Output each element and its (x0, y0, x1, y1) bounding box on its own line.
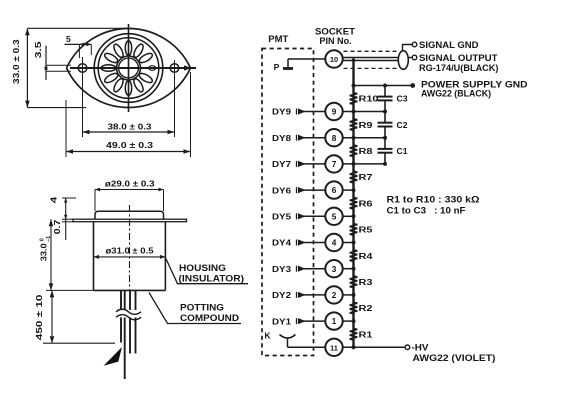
housing leader line (165, 258, 248, 284)
dimension 33.0 text (11, 39, 21, 84)
resistor R2 (350, 302, 358, 314)
svg-text:AWG22 (VIOLET): AWG22 (VIOLET) (413, 353, 496, 363)
resistor R8 (350, 145, 358, 157)
wire bus to POWER SUPPLY GND (354, 85, 411, 87)
dynode DY1 pin symbol (297, 318, 306, 324)
svg-text:6: 6 (332, 186, 337, 195)
dimension dia 31.0 text (106, 245, 154, 255)
label SOCKET PIN No. (315, 26, 356, 46)
svg-text:DY9: DY9 (272, 107, 291, 117)
capacitor C3 (378, 97, 393, 101)
wire DY3 to pin 3 (303, 268, 325, 270)
svg-text:SIGNAL GND: SIGNAL GND (419, 40, 479, 50)
svg-text:C1 to C3 : 10 nF: C1 to C3 : 10 nF (387, 206, 467, 216)
wire coax core to SIGNAL OUTPUT (408, 57, 412, 59)
dimension 33.0 extension top (27, 27, 131, 29)
dimension 33.0 line (25, 28, 30, 107)
svg-text:R6: R6 (359, 198, 373, 208)
dimension 33.0 extension bottom (27, 107, 86, 109)
dynode DY2 pin symbol (297, 292, 306, 298)
dimension 33.0 side vertical (46, 219, 94, 290)
dynode DY7 pin symbol (297, 161, 306, 167)
dynode DY6 pin symbol (297, 187, 306, 193)
dimension dia 29.0 text (105, 179, 155, 189)
dimension 450 text (35, 294, 44, 340)
wire pin 8 to capacitor column (343, 137, 385, 139)
dynode DY7 label (272, 159, 291, 169)
svg-text:R3: R3 (359, 277, 373, 287)
dimension 4 and 0.7 vertical (64, 198, 67, 240)
top view right mounting hole (170, 64, 179, 73)
svg-text:COMPOUND: COMPOUND (180, 313, 239, 323)
dimension 450 extension bottom (43, 342, 115, 344)
svg-text:R2: R2 (359, 303, 373, 313)
label R7 (359, 172, 373, 182)
dynode DY9 pin symbol (297, 108, 306, 114)
dynode DY5 label (272, 212, 291, 222)
svg-text:0: 0 (40, 238, 46, 241)
svg-text:R9: R9 (359, 120, 373, 130)
dimension 3.5 lines (44, 46, 71, 81)
label C1 (397, 146, 408, 156)
svg-text:DY6: DY6 (272, 185, 291, 195)
svg-text:38.0 ± 0.3: 38.0 ± 0.3 (108, 122, 152, 132)
wire DY6 to pin 6 (303, 189, 325, 191)
svg-text:R1 to R10 : 330 kΩ: R1 to R10 : 330 kΩ (387, 195, 480, 205)
svg-text:AWG22 (BLACK): AWG22 (BLACK) (421, 89, 491, 99)
svg-text:DY4: DY4 (272, 238, 291, 248)
label -HV (412, 342, 429, 352)
capacitor C1 (378, 149, 393, 153)
socket pin 11 circle (325, 339, 342, 356)
svg-text:5: 5 (332, 212, 337, 221)
socket pin 2 circle (325, 286, 342, 303)
label PMT (268, 34, 289, 44)
svg-text:K: K (264, 331, 271, 341)
wire pin 2 to bus (343, 294, 354, 296)
resistor R4 (350, 250, 358, 262)
svg-text:ø29.0 ± 0.3: ø29.0 ± 0.3 (105, 179, 155, 189)
anode P symbol (274, 59, 293, 72)
terminal POWER SUPPLY GND (dot) (410, 83, 415, 88)
socket pin 8 circle (325, 129, 342, 146)
svg-text:DY8: DY8 (272, 133, 291, 143)
cable end arrow (solid) (104, 347, 123, 366)
dimension 49.0 extension right (190, 72, 192, 157)
socket pin 10 circle (325, 50, 342, 67)
dynode DY4 pin symbol (297, 239, 306, 245)
wire pin 3 to bus (343, 268, 354, 270)
label SIGNAL GND (419, 40, 479, 50)
extension line right hole (174, 60, 176, 137)
wire pin 1 to bus (343, 320, 354, 322)
wire lead 3 (129, 291, 131, 354)
svg-text:R10: R10 (359, 94, 379, 104)
socket pin 7 circle (325, 155, 342, 172)
wire pin 11 to -HV (343, 346, 405, 348)
dimension 3.5 text (34, 41, 43, 59)
wire DY8 to pin 8 (303, 137, 325, 139)
label AWG22 VIOLET (413, 353, 496, 363)
label R4 (359, 251, 373, 261)
svg-text:0.7: 0.7 (53, 219, 62, 234)
top view horizontal centerline (70, 65, 196, 70)
svg-text:SIGNAL OUTPUT: SIGNAL OUTPUT (419, 53, 498, 63)
svg-text:4: 4 (332, 239, 337, 248)
dimension 49.0 text (106, 140, 153, 150)
terminal SIGNAL GND (412, 42, 417, 47)
PMT dashed enclosure (262, 49, 314, 356)
label R1 (359, 329, 373, 339)
terminal -HV (405, 345, 410, 350)
potting label (180, 303, 239, 324)
svg-text:8: 8 (332, 134, 337, 143)
coax jacket dashed outline (344, 51, 399, 68)
svg-text:P: P (274, 62, 280, 72)
cathode K symbol (264, 331, 295, 348)
wire DY7 to pin 7 (303, 163, 325, 165)
wire DY5 to pin 5 (303, 215, 325, 217)
svg-text:DY3: DY3 (272, 264, 291, 274)
svg-text:DY2: DY2 (272, 290, 291, 300)
svg-text:3.5: 3.5 (34, 41, 43, 59)
label R9 (359, 120, 373, 130)
wire coax shield to SIGNAL GND (403, 45, 413, 52)
note resistor values (387, 195, 480, 205)
socket pin 3 circle (325, 260, 342, 277)
wire pin 4 to bus (343, 242, 354, 244)
label C2 (397, 120, 408, 130)
potting leader line (149, 293, 241, 324)
socket pin 1 circle (325, 312, 342, 329)
svg-text:PMT: PMT (268, 34, 289, 44)
top view flange outline (eye shape) (67, 28, 191, 107)
label R3 (359, 277, 373, 287)
svg-text:1: 1 (332, 317, 337, 326)
svg-text:SOCKET: SOCKET (315, 26, 356, 36)
wire DY2 to pin 2 (303, 294, 325, 296)
svg-text:2: 2 (332, 291, 337, 300)
dimension 33.0 side text (39, 236, 52, 261)
top view left mounting hole (78, 64, 87, 73)
wire DY4 to pin 4 (303, 242, 325, 244)
svg-text:R4: R4 (359, 251, 373, 261)
dimension 4 extension (62, 197, 76, 199)
svg-text:C3: C3 (397, 94, 408, 104)
top view 11 pin hole ovals (101, 41, 154, 96)
label R2 (359, 303, 373, 313)
dimension 5 text (66, 34, 71, 44)
dimension 49.0 line (66, 149, 191, 154)
svg-text:11: 11 (330, 343, 338, 352)
resistor R3 (350, 276, 358, 288)
resistor R5 (350, 224, 358, 236)
side view socket dome cap (95, 211, 164, 219)
housing label (179, 263, 245, 284)
label R5 (359, 225, 373, 235)
top view center hub circles (117, 56, 141, 80)
svg-text:33.0: 33.0 (39, 243, 48, 261)
junction dots (352, 58, 388, 349)
svg-text:R8: R8 (359, 146, 373, 156)
flange extension lines (62, 219, 73, 222)
svg-text:3: 3 (332, 265, 337, 274)
dynode DY5 pin symbol (297, 213, 306, 219)
capacitor column wire (384, 86, 386, 164)
note capacitor values (387, 206, 467, 216)
svg-text:49.0 ± 0.3: 49.0 ± 0.3 (106, 140, 153, 150)
svg-text:4: 4 (49, 196, 58, 203)
divider bus wire (352, 59, 354, 347)
svg-text:PIN No.: PIN No. (319, 36, 351, 46)
terminal SIGNAL OUTPUT (412, 55, 417, 60)
resistor R7 (350, 171, 358, 183)
svg-text:R7: R7 (359, 172, 373, 182)
side view housing cylinder (94, 222, 166, 291)
svg-text:ø31.0 ± 0.5: ø31.0 ± 0.5 (106, 245, 154, 255)
wire pin 6 to bus (343, 189, 354, 191)
label R6 (359, 198, 373, 208)
dimension dia 29.0 line (95, 188, 164, 211)
svg-text:7: 7 (332, 160, 337, 169)
svg-text:POTTING: POTTING (180, 303, 224, 313)
dynode DY9 label (272, 107, 291, 117)
label C3 (397, 94, 408, 104)
svg-text:9: 9 (332, 108, 337, 117)
wire lead 1 (120, 291, 122, 343)
label AWG22 BLACK (421, 89, 491, 99)
wire lead 4 (135, 291, 137, 354)
extension line left hole (82, 57, 84, 137)
dimension 38.0 line (83, 130, 175, 135)
dimension 0.7 text (53, 219, 62, 234)
svg-text:HOUSING: HOUSING (179, 263, 226, 273)
dimension 38.0 text (108, 122, 152, 132)
dimension 450 vertical (50, 290, 55, 343)
wire P to pin 10 (288, 58, 325, 60)
svg-text:−1: −1 (46, 236, 52, 242)
resistor R1 (350, 329, 358, 341)
label RG-174/U(BLACK) (419, 63, 499, 73)
wire DY1 to pin 1 (303, 320, 325, 322)
cable break symbol (115, 309, 143, 320)
dynode DY1 label (272, 316, 291, 326)
svg-text:C2: C2 (397, 120, 408, 130)
dimension dia 31.0 line (94, 255, 166, 259)
socket pin 6 circle (325, 181, 342, 198)
label R8 (359, 146, 373, 156)
top view socket outer rim (94, 34, 163, 103)
svg-text:33.0 ± 0.3: 33.0 ± 0.3 (11, 39, 21, 84)
dynode DY4 label (272, 238, 291, 248)
dynode DY8 pin symbol (297, 135, 306, 141)
svg-text:DY5: DY5 (272, 212, 291, 222)
side view flange plate (73, 219, 187, 222)
svg-text:DY7: DY7 (272, 159, 291, 169)
resistor R6 (350, 197, 358, 209)
svg-text:DY1: DY1 (272, 316, 291, 326)
wire pin 9 to capacitor column (343, 111, 385, 113)
svg-text:C1: C1 (397, 146, 408, 156)
wire lead 2 (long) (124, 291, 126, 379)
svg-text:450 ± 10: 450 ± 10 (35, 294, 44, 340)
socket pin 4 circle (325, 234, 342, 251)
socket pin 5 circle (325, 208, 342, 225)
label SIGNAL OUTPUT (419, 53, 498, 63)
top view key hole (small oval at 3 o'clock) (149, 66, 156, 71)
top view socket inner rim (98, 38, 159, 99)
svg-text:10: 10 (330, 55, 338, 64)
resistor R9 (350, 119, 358, 131)
svg-text:R1: R1 (359, 329, 373, 339)
svg-text:-HV: -HV (412, 342, 429, 352)
side view vertical centerline (129, 205, 131, 291)
svg-text:5: 5 (66, 34, 71, 44)
coax cable end ellipse (398, 51, 408, 70)
dynode DY3 pin symbol (297, 266, 306, 272)
wire pin 7 to capacitor column (343, 163, 385, 165)
dimension 49.0 extension left (65, 100, 67, 157)
wire DY9 to pin 9 (303, 111, 325, 113)
wire pin 5 to bus (343, 215, 354, 217)
capacitor C2 (378, 123, 393, 127)
svg-text:R5: R5 (359, 225, 373, 235)
dimension 4 text (49, 196, 58, 203)
label R10 (359, 94, 379, 104)
svg-text:(INSULATOR): (INSULATOR) (179, 274, 245, 284)
top view vertical centerline (128, 24, 130, 112)
dynode DY3 label (272, 264, 291, 274)
dynode DY6 label (272, 185, 291, 195)
socket pin 9 circle (325, 103, 342, 120)
svg-text:RG-174/U(BLACK): RG-174/U(BLACK) (419, 63, 499, 73)
resistor R10 (350, 93, 358, 104)
dynode DY2 label (272, 290, 291, 300)
wire K to pin 11 (288, 346, 326, 348)
coax conductors from pin 10 (343, 58, 399, 61)
dynode DY8 label (272, 133, 291, 143)
dimension 5 line (65, 43, 92, 59)
label POWER SUPPLY GND (421, 80, 528, 90)
